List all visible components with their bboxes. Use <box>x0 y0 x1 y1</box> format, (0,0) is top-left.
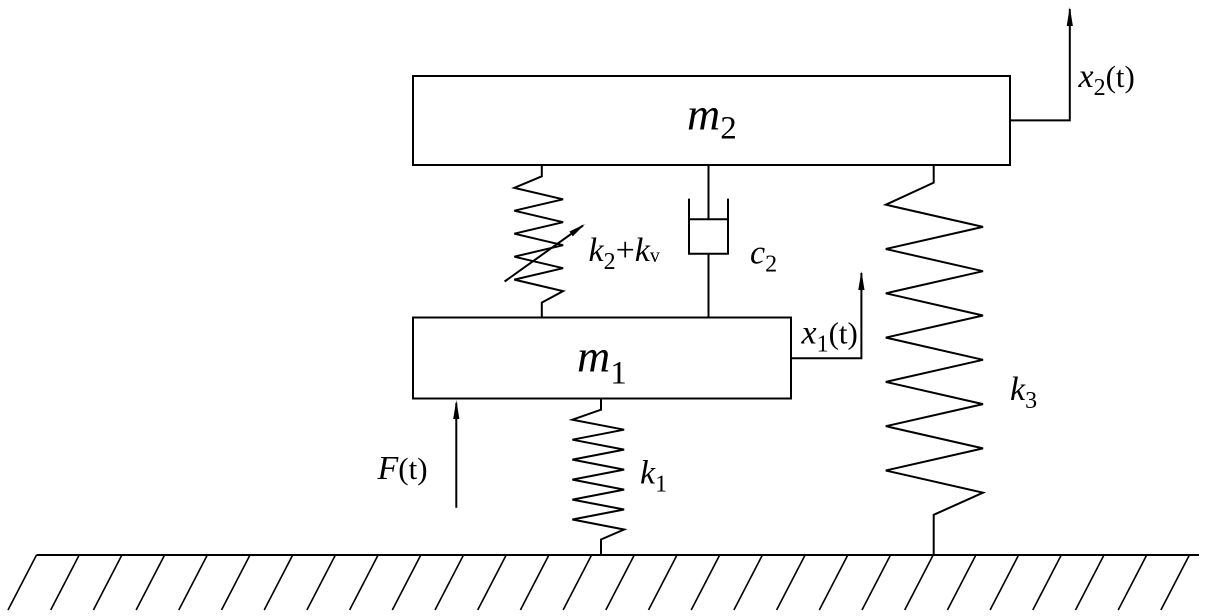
damper c2 cylinder cup <box>689 199 728 254</box>
arrowhead variable-spring arrow <box>569 224 585 236</box>
mass m2 <box>413 76 1010 165</box>
damper c2 piston plate <box>689 218 728 220</box>
displacement x2(t) leader <box>1010 9 1070 120</box>
svg-text:m2: m2 <box>687 89 737 147</box>
arrowhead F(t) <box>453 400 459 419</box>
spring k2+kv <box>514 166 563 319</box>
spring k3 <box>886 165 983 556</box>
variable-spring arrow <box>505 226 583 282</box>
damper c2 rod top <box>708 165 710 219</box>
mass m1 <box>413 318 791 399</box>
svg-text:F(t): F(t) <box>377 450 428 487</box>
svg-text:k1: k1 <box>640 454 667 497</box>
spring k1 <box>572 398 624 555</box>
ground hatching <box>8 555 1189 610</box>
damper c2 rod bottom <box>708 254 710 318</box>
svg-text:x1(t): x1(t) <box>801 315 858 358</box>
arrowhead x1(t) <box>858 271 864 290</box>
svg-text:c2: c2 <box>750 234 777 277</box>
svg-text:m1: m1 <box>577 331 627 392</box>
arrowhead x2(t) <box>1067 7 1073 26</box>
svg-text:k2+kv: k2+kv <box>589 232 660 275</box>
svg-text:x2(t): x2(t) <box>1078 58 1135 101</box>
force arrow F(t) shaft <box>455 403 457 508</box>
svg-text:k3: k3 <box>1010 371 1037 414</box>
displacement x1(t) leader <box>791 273 861 358</box>
ground <box>37 554 1200 556</box>
